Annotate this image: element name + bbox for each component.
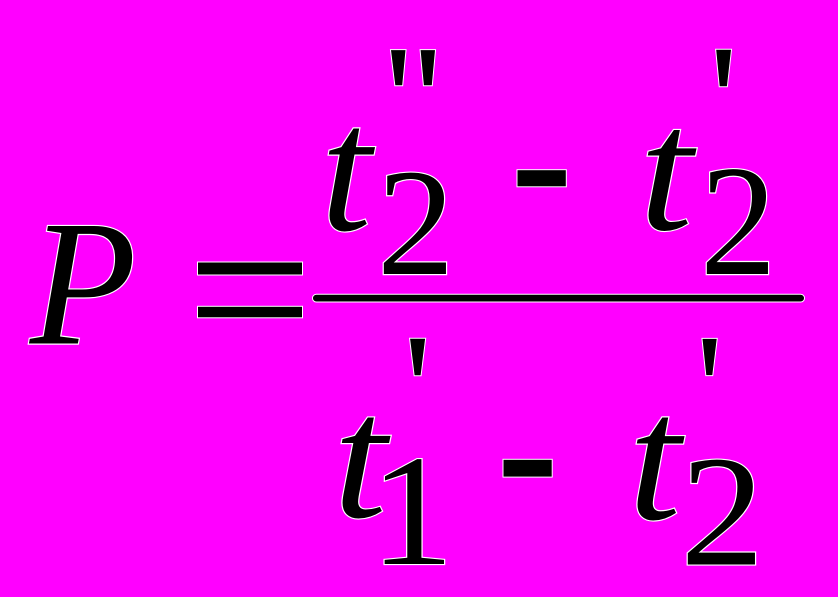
denominator first prime xyxy=(410,339,425,375)
numerator first subscript 2 xyxy=(377,139,455,308)
denominator minus sign xyxy=(504,460,552,477)
equals sign bottom bar xyxy=(198,307,302,318)
numerator second t xyxy=(639,72,696,267)
numerator single prime xyxy=(716,50,731,86)
fraction bar xyxy=(313,295,804,302)
svg-text:t: t xyxy=(629,358,685,557)
svg-text:P: P xyxy=(29,184,137,383)
svg-text:2: 2 xyxy=(680,425,764,597)
denominator second prime xyxy=(703,339,717,375)
svg-text:t: t xyxy=(639,72,696,267)
svg-text:t: t xyxy=(321,71,375,270)
variable P xyxy=(29,184,137,383)
denominator first t xyxy=(333,360,390,555)
numerator second subscript 2 xyxy=(700,132,776,308)
numerator first t xyxy=(321,71,375,270)
numerator double prime stroke 2 xyxy=(421,50,435,85)
numerator minus sign xyxy=(518,170,566,186)
svg-text:1: 1 xyxy=(370,423,454,597)
denominator subscript 1 xyxy=(370,423,454,597)
numerator double prime stroke 1 xyxy=(391,50,406,85)
svg-text:2: 2 xyxy=(377,139,455,308)
denominator subscript 2 xyxy=(680,425,764,597)
denominator second t xyxy=(629,358,685,557)
svg-text:2: 2 xyxy=(700,132,776,308)
equals sign top bar xyxy=(198,263,302,275)
